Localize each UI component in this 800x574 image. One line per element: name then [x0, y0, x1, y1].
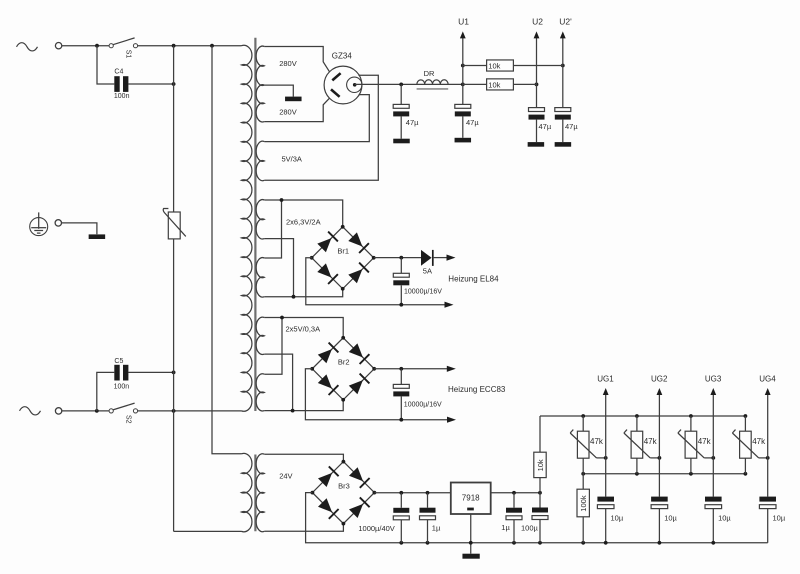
svg-text:10000µ/16V: 10000µ/16V: [404, 401, 442, 408]
svg-text:DR: DR: [424, 69, 435, 78]
svg-text:C4: C4: [114, 69, 123, 76]
svg-text:100n: 100n: [114, 93, 130, 100]
svg-text:S2: S2: [125, 415, 132, 424]
svg-text:47µ: 47µ: [565, 122, 578, 131]
svg-text:UG1: UG1: [597, 374, 614, 383]
svg-text:7918: 7918: [462, 493, 480, 502]
svg-text:100k: 100k: [579, 495, 588, 512]
svg-text:47µ: 47µ: [406, 118, 419, 127]
svg-text:10000µ/16V: 10000µ/16V: [404, 289, 442, 296]
svg-text:10µ: 10µ: [773, 514, 786, 523]
svg-text:5A: 5A: [423, 267, 432, 276]
svg-text:10µ: 10µ: [718, 514, 731, 523]
svg-text:24V: 24V: [279, 471, 292, 480]
svg-text:47k: 47k: [644, 437, 658, 446]
svg-text:U2: U2: [532, 17, 543, 27]
svg-text:S1: S1: [125, 50, 132, 59]
svg-text:10µ: 10µ: [664, 514, 677, 523]
svg-text:10k: 10k: [536, 459, 545, 471]
svg-text:GZ34: GZ34: [332, 51, 353, 60]
svg-text:Heizung EL84: Heizung EL84: [448, 275, 499, 284]
svg-text:280V: 280V: [279, 59, 297, 68]
svg-text:UG2: UG2: [651, 374, 668, 383]
svg-text:Br1: Br1: [337, 247, 349, 256]
svg-text:100n: 100n: [114, 383, 130, 390]
svg-text:U1: U1: [458, 17, 469, 27]
svg-text:1µ: 1µ: [501, 523, 510, 532]
svg-text:2x6,3V/2A: 2x6,3V/2A: [286, 217, 321, 226]
svg-text:Br2: Br2: [338, 358, 350, 367]
svg-text:Br3: Br3: [338, 481, 350, 490]
svg-text:47µ: 47µ: [539, 122, 552, 131]
svg-text:100µ: 100µ: [521, 523, 539, 532]
svg-text:10k: 10k: [488, 62, 500, 71]
svg-text:1µ: 1µ: [432, 524, 441, 533]
svg-text:U2': U2': [559, 17, 572, 27]
svg-text:47k: 47k: [698, 437, 712, 446]
svg-text:Heizung ECC83: Heizung ECC83: [448, 385, 506, 394]
svg-text:2x5V/0,3A: 2x5V/0,3A: [286, 325, 321, 334]
svg-text:C5: C5: [114, 358, 123, 365]
svg-text:1000µ/40V: 1000µ/40V: [358, 524, 394, 533]
svg-text:47k: 47k: [752, 437, 766, 446]
svg-text:47k: 47k: [590, 437, 604, 446]
svg-text:280V: 280V: [279, 107, 297, 116]
svg-text:UG4: UG4: [759, 374, 776, 383]
svg-text:47µ: 47µ: [466, 118, 479, 127]
svg-text:10µ: 10µ: [611, 514, 624, 523]
svg-text:5V/3A: 5V/3A: [282, 154, 302, 163]
svg-text:10k: 10k: [488, 80, 500, 89]
svg-text:UG3: UG3: [705, 374, 722, 383]
